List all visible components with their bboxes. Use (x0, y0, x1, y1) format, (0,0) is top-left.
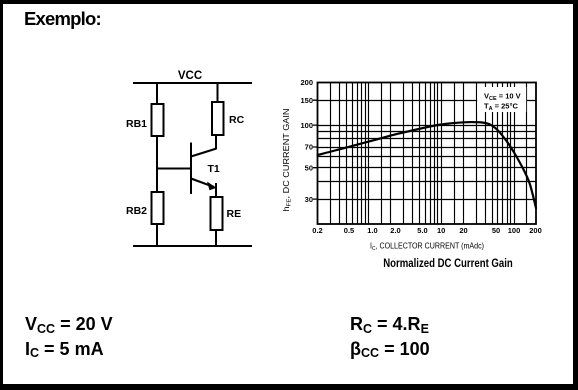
equation Vcc = 20 V (25, 314, 113, 335)
svg-text:30: 30 (305, 195, 313, 204)
graph y-axis tick marks (313, 100, 318, 199)
svg-text:VCC: VCC (178, 70, 202, 82)
equation Bcc = 100 (350, 339, 430, 360)
svg-text:2.0: 2.0 (390, 226, 400, 235)
svg-text:0.5: 0.5 (344, 226, 354, 235)
transistor T1 base bar (190, 143, 192, 195)
svg-text:0.2: 0.2 (312, 226, 322, 235)
resistor RE (211, 197, 223, 230)
graph plot border (318, 83, 537, 225)
graph minor grid horizontal lines (318, 101, 537, 200)
resistor RB1 (152, 104, 164, 136)
transistor T1 emitter arrowhead (207, 182, 217, 191)
graph curve (318, 122, 537, 208)
svg-text:hFE, DC CURRENT GAIN: hFE, DC CURRENT GAIN (282, 108, 292, 211)
wire RE lower (RE to ground rail) (215, 229, 217, 247)
wire ground bottom rail (133, 245, 252, 247)
wire base (node to transistor base) (156, 168, 191, 170)
svg-text:150: 150 (300, 96, 313, 105)
equation Ic = 5 mA (25, 339, 104, 360)
svg-text:Normalized DC Current Gain: Normalized DC Current Gain (383, 256, 513, 270)
svg-text:1.0: 1.0 (367, 226, 377, 235)
wire collector vertical (RC to collector) (215, 134, 217, 149)
svg-text:100: 100 (508, 226, 521, 235)
wire left branch upper (VCC to RB1) (156, 82, 158, 105)
svg-text:70: 70 (305, 143, 313, 152)
transistor T1 collector lead (191, 149, 217, 157)
svg-text:200: 200 (300, 78, 313, 87)
svg-text:T1: T1 (208, 163, 220, 175)
wire left branch middle (RB1 to RB2, through base node) (156, 135, 158, 193)
svg-text:IC, COLLECTOR CURRENT (mAdc): IC, COLLECTOR CURRENT (mAdc) (370, 242, 484, 253)
wire emitter vertical (emitter to RE) (215, 183, 217, 198)
svg-text:200: 200 (529, 226, 542, 235)
svg-text:RB1: RB1 (126, 118, 147, 130)
wire VCC top rail (133, 82, 252, 84)
equation Rc = 4.Re (350, 314, 429, 335)
resistor RC (212, 102, 224, 135)
svg-text:100: 100 (300, 121, 313, 130)
svg-text:RE: RE (227, 208, 242, 220)
svg-text:20: 20 (459, 226, 467, 235)
transistor T1 emitter lead (191, 179, 214, 188)
graph legend white patch (477, 87, 526, 112)
graph minor grid vertical lines (331, 83, 527, 225)
svg-text:RB2: RB2 (126, 205, 147, 217)
svg-text:10: 10 (437, 226, 445, 235)
svg-text:50: 50 (492, 226, 500, 235)
title Exemplo: (24, 8, 101, 30)
wire left branch lower (RB2 to ground rail) (156, 223, 158, 247)
resistor RB2 (152, 192, 164, 224)
svg-text:5.0: 5.0 (417, 226, 427, 235)
svg-text:50: 50 (305, 163, 313, 172)
wire right branch upper (VCC to RC) (217, 82, 219, 103)
svg-text:RC: RC (229, 114, 245, 126)
